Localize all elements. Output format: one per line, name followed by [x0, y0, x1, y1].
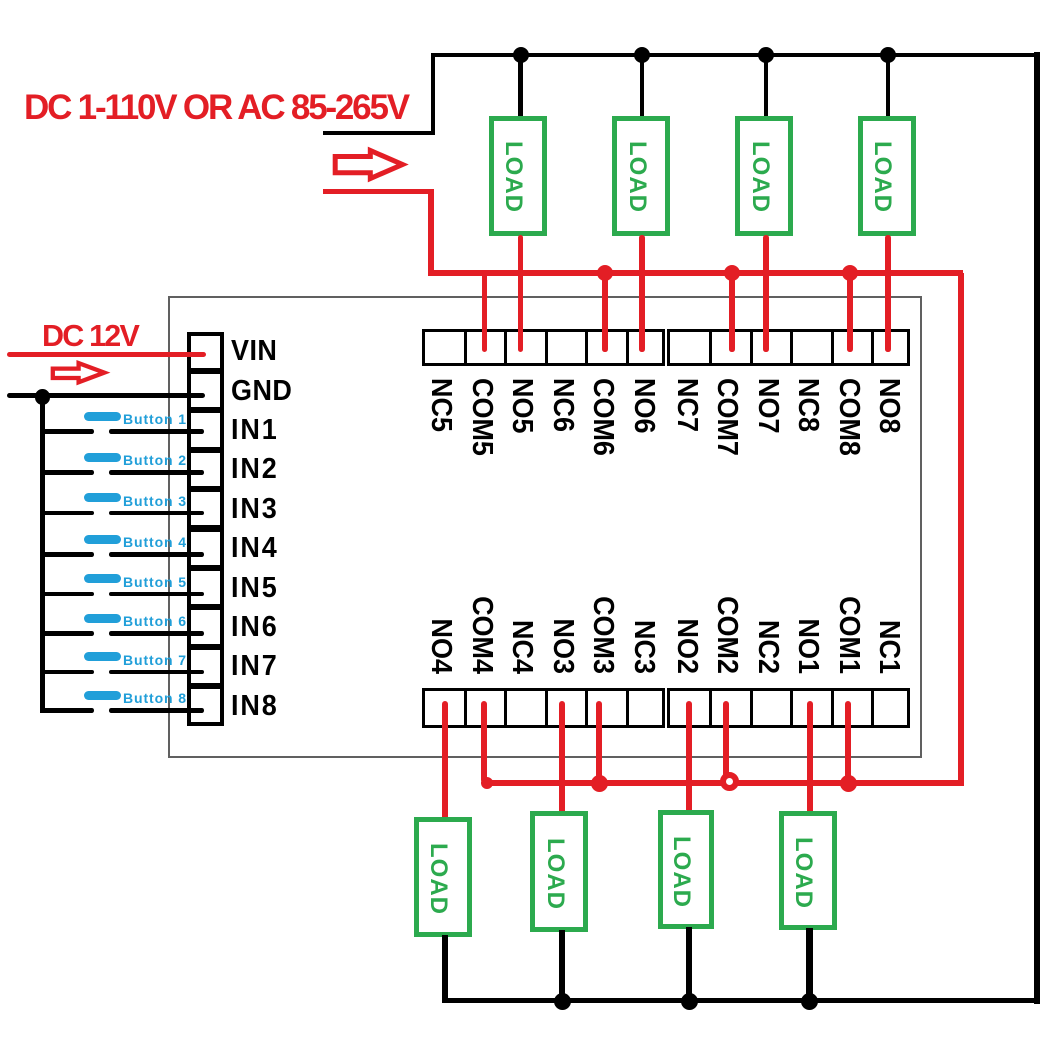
wire bus to button 5 contact [42, 592, 94, 597]
relay module board outline [168, 296, 922, 758]
wire bus to button 3 contact [42, 511, 94, 516]
wire LOAD L6 to terminal NO6 [639, 235, 645, 352]
wire red COM top bus [428, 270, 963, 276]
label terminal NC6 [548, 378, 577, 432]
button B3 actuator [84, 493, 121, 502]
label terminal NC8 [793, 378, 822, 432]
terminal block divider 8 [190, 644, 220, 650]
junction on AC bus at LOAD L8 [880, 47, 896, 63]
junction red bus at COM3 [591, 775, 608, 792]
wire red bus to terminal COM7 [729, 273, 735, 352]
wire red bus to terminal COM6 [602, 273, 608, 352]
button B2 actuator [84, 453, 121, 462]
wire red COM bottom bus [483, 780, 964, 787]
label pin IN2 [231, 455, 279, 484]
wire LOAD L2 to black return bus [686, 927, 693, 1003]
button B8 actuator [84, 691, 121, 700]
wire terminal NO1 to LOAD L1 [807, 701, 813, 816]
wire from AC bus to LOAD L6 [640, 55, 645, 121]
arrow AC input direction [329, 145, 415, 185]
load L5 (top) [489, 116, 547, 236]
junction red bus at COM8 [842, 265, 858, 281]
terminal block divider 5 [190, 525, 220, 531]
label terminal NC7 [672, 378, 701, 432]
terminal strip NC5-NO6 (top left group) [422, 329, 665, 366]
terminal block divider 6 [190, 565, 220, 571]
label DC 12V [42, 320, 138, 352]
label Button 1 [123, 412, 187, 426]
wire black bottom return bus [442, 998, 1040, 1004]
label terminal NO2 [672, 619, 701, 674]
button B4 actuator [84, 535, 121, 544]
label pin IN1 [231, 416, 279, 445]
label terminal COM3 [588, 596, 617, 674]
wire red right-side bus [958, 273, 964, 786]
wire button 5 to IN5 [109, 592, 204, 597]
label pin IN5 [231, 574, 279, 603]
label terminal NO5 [507, 378, 536, 433]
label terminal COM1 [834, 596, 863, 674]
wire from AC bus to LOAD L5 [518, 55, 523, 121]
terminal block divider 9 [190, 683, 220, 689]
label Button 6 [123, 614, 187, 628]
terminal block divider 1 [190, 368, 220, 374]
wire LOAD L7 to terminal NO7 [763, 235, 769, 352]
label terminal NC4 [507, 620, 536, 674]
wire bus to button 6 contact [42, 631, 94, 636]
button B7 actuator [84, 652, 121, 661]
button B6 actuator [84, 614, 121, 623]
wire red bus to terminal COM5 [482, 273, 488, 352]
label terminal NC2 [753, 620, 782, 674]
label Button 3 [123, 494, 187, 508]
wire button common bus [40, 396, 45, 713]
wire terminal COM3 to red bus [596, 701, 602, 786]
wire AC red input horizontal [323, 189, 434, 195]
wire bus to button 2 contact [42, 470, 94, 475]
label Button 4 [123, 535, 187, 549]
wire AC top bus [431, 53, 1039, 58]
terminal block divider 7 [190, 604, 220, 610]
terminal block divider 2 [190, 407, 220, 413]
wire button 1 to IN1 [109, 429, 204, 434]
label AC voltage range [24, 90, 408, 127]
wire red bus to terminal COM8 [847, 273, 853, 352]
label pin IN7 [231, 652, 279, 681]
load L7 (top) [735, 116, 793, 236]
junction red bus at COM4 corner [481, 777, 493, 789]
wire black right-side return [1034, 52, 1039, 1004]
label Button 8 [123, 691, 187, 705]
junction red bus at COM6 [597, 265, 613, 281]
terminal block divider 3 [190, 447, 220, 453]
label terminal COM2 [712, 596, 741, 674]
wire button 3 to IN3 [109, 511, 204, 516]
label pin IN6 [231, 613, 279, 642]
label terminal NO7 [753, 378, 782, 433]
arrow DC input direction [47, 358, 117, 388]
wire DC 12V positive to VIN [7, 352, 206, 358]
wire DC ground to GND [7, 393, 205, 398]
load L1 (bottom) [779, 811, 837, 930]
label terminal NO8 [874, 378, 903, 433]
label Button 2 [123, 453, 187, 467]
wire button 8 to IN8 [109, 708, 204, 713]
wire terminal COM2 to red bus [723, 701, 729, 786]
label terminal NO1 [793, 619, 822, 674]
label terminal COM6 [588, 378, 617, 456]
junction on AC bus at LOAD L7 [758, 47, 774, 63]
label pin VIN [231, 337, 277, 366]
label terminal NO6 [629, 378, 658, 433]
wire button 6 to IN6 [109, 631, 204, 636]
wire bus to button 4 contact [42, 552, 94, 557]
junction black return bus at LOAD L1 [801, 993, 818, 1010]
wire terminal NO4 to LOAD L4 [442, 701, 448, 822]
load L6 (top) [612, 116, 670, 236]
load L8 (top) [858, 116, 916, 236]
wire LOAD L5 to terminal NO5 [518, 235, 524, 352]
label terminal COM8 [834, 378, 863, 456]
load L3 (bottom) [530, 811, 588, 932]
junction on AC bus at LOAD L6 [634, 47, 650, 63]
label pin GND [231, 377, 292, 406]
label terminal NC5 [426, 378, 455, 432]
junction red bus at COM2 (open) [720, 772, 739, 791]
wire LOAD L4 to black return bus [442, 935, 449, 1004]
label terminal COM4 [467, 596, 496, 674]
junction black return bus at LOAD L3 [554, 993, 571, 1010]
wire AC red input riser [428, 192, 434, 276]
load L4 (bottom) [414, 817, 472, 937]
wire button 7 to IN7 [109, 670, 204, 675]
label terminal NO4 [426, 619, 455, 674]
wire AC line input horizontal [323, 131, 435, 136]
wire terminal COM1 to red bus [845, 701, 851, 786]
terminal strip NC7-NO8 (top right group) [667, 329, 910, 366]
load L2 (bottom) [658, 810, 714, 929]
junction DC ground [35, 389, 51, 405]
terminal block column VIN-IN8 [187, 332, 224, 726]
wire from AC bus to LOAD L8 [886, 55, 891, 121]
wire LOAD L1 to black return bus [806, 928, 813, 1003]
wire LOAD L8 to terminal NO8 [885, 235, 891, 352]
terminal block divider 4 [190, 486, 220, 492]
wire button 4 to IN4 [109, 552, 204, 557]
terminal strip NO4-NC3 (bottom left group) [422, 688, 665, 728]
junction red bus at COM1 [840, 775, 857, 792]
button B5 actuator [84, 574, 121, 583]
label terminal NC1 [874, 620, 903, 674]
wire LOAD L3 to black return bus [559, 930, 566, 1004]
button B1 actuator [84, 412, 121, 421]
label Button 7 [123, 653, 187, 667]
wire AC line input riser [431, 53, 436, 133]
wire from AC bus to LOAD L7 [764, 55, 769, 121]
wire terminal NO2 to LOAD L2 [686, 701, 692, 815]
wire bus to button 1 contact [42, 429, 94, 434]
label pin IN8 [231, 692, 279, 721]
wire terminal NO3 to LOAD L3 [559, 701, 565, 816]
junction red bus at COM7 [724, 265, 740, 281]
label Button 5 [123, 575, 187, 589]
label pin IN3 [231, 495, 279, 524]
junction on AC bus at LOAD L5 [513, 47, 529, 63]
wire terminal COM4 to red bus [481, 701, 487, 783]
label pin IN4 [231, 534, 279, 563]
wire bus to button 7 contact [42, 670, 94, 675]
label terminal NO3 [548, 619, 577, 674]
label terminal COM7 [712, 378, 741, 456]
junction black return bus at LOAD L2 [681, 993, 698, 1010]
wire bus to button 8 contact [42, 708, 94, 713]
label terminal COM5 [467, 378, 496, 456]
terminal strip NO2-NC1 (bottom right group) [667, 688, 910, 728]
wire button 2 to IN2 [109, 470, 204, 475]
label terminal NC3 [629, 620, 658, 674]
